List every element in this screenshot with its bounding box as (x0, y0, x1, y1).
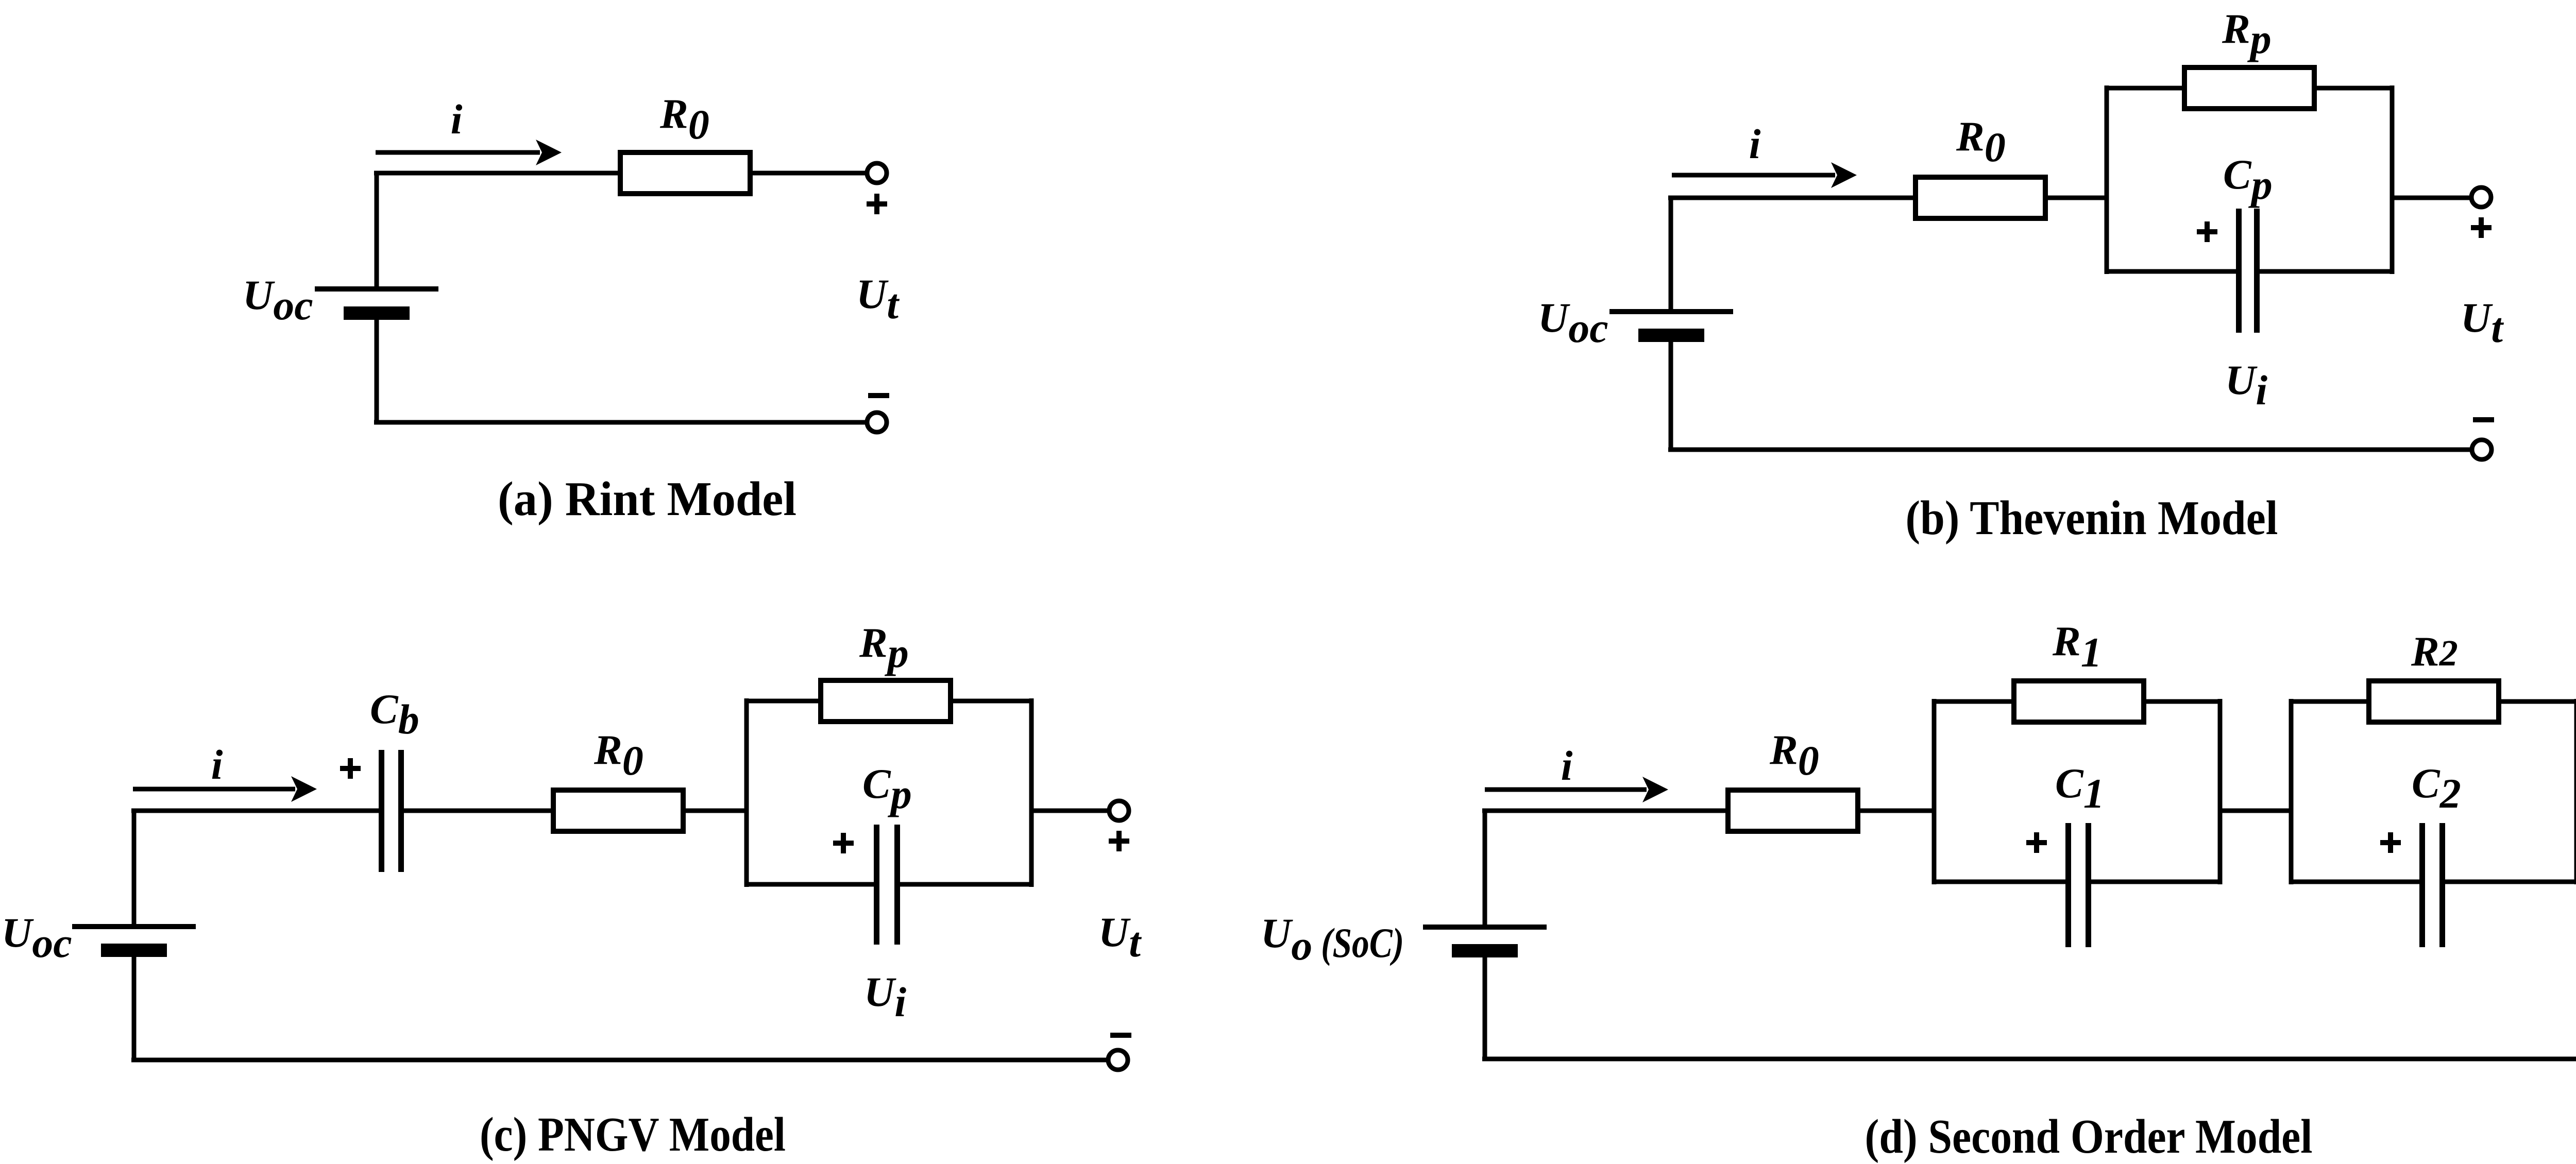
resistor R0 (d) (1728, 790, 1858, 831)
wire R0 to RC group 1 (d) (1858, 809, 1934, 813)
resistor Rp (b) (2184, 67, 2314, 109)
plus sign capacitor C2 (d) (2380, 832, 2401, 853)
wire bottom (c) (131, 1058, 1107, 1063)
output wire (c) (1031, 809, 1108, 813)
battery Uoc (a) long plate (315, 286, 438, 292)
output wire (b) (2392, 196, 2470, 200)
capacitor C1 (d) left plate (2065, 823, 2071, 947)
current arrow i (d) (1485, 777, 1668, 802)
resistor R1 (d) (2014, 681, 2144, 722)
capacitor Cp (c) left plate (874, 825, 879, 945)
RC group top wire right segment (b) (2314, 86, 2394, 91)
battery Uoc (c) long plate (72, 924, 196, 929)
RC group 1 top wire left segment (d) (1932, 699, 2014, 704)
RC group bottom wire right segment (b) (2260, 269, 2394, 274)
RC group right vertical (c) (1029, 698, 1034, 887)
minus sign terminal (c) (1110, 1033, 1131, 1038)
wire source to R0 (b) (1668, 196, 1916, 200)
capacitor Cb (c) right plate (398, 750, 404, 872)
capacitor C1 (d) right plate (2086, 823, 2091, 947)
minus sign terminal (a) (868, 393, 889, 398)
battery Uoc (b) long plate (1609, 309, 1733, 314)
resistor R2 (d) (2369, 681, 2499, 722)
RC group 2 left vertical (d) (2289, 699, 2294, 884)
battery Uo (d) long plate (1423, 925, 1547, 930)
plus sign terminal (c) (1109, 831, 1129, 851)
resistor Rp (c) (821, 680, 951, 722)
RC group 1 bottom wire right segment (d) (2091, 880, 2222, 884)
svg-text:i: i (1561, 742, 1573, 789)
wire R0 to RC group (c) (683, 809, 747, 813)
capacitor Cp (b) left plate (2236, 209, 2242, 333)
battery Uoc (a) thick plate (344, 306, 410, 320)
wire R0 to RC group (b) (2045, 196, 2107, 200)
terminal - (a) (867, 413, 887, 432)
wire left vertical (c) (132, 811, 137, 925)
wire bottom (b) (1668, 448, 2470, 452)
battery Uoc (c) thick plate (101, 944, 167, 957)
svg-text:i: i (451, 96, 463, 143)
RC group top wire left segment (c) (744, 699, 821, 704)
terminal + (a) (867, 163, 887, 183)
RC group 1 bottom wire left segment (d) (1932, 880, 2065, 884)
current arrow i (c) (133, 776, 317, 802)
RC group 1 right vertical (d) (2218, 699, 2223, 884)
RC group left vertical (b) (2105, 85, 2109, 274)
RC group top wire left segment (b) (2105, 86, 2184, 91)
wire Cb to R0 (c) (404, 809, 553, 813)
wire R0 to terminal (a) (750, 171, 866, 176)
RC group 2 bottom wire left segment (d) (2289, 880, 2419, 884)
wire RC group 1 to RC group 2 (d) (2220, 809, 2291, 813)
wire left vertical (d) (1483, 811, 1487, 925)
wire bottom (d) (1482, 1057, 2576, 1062)
terminal + (c) (1109, 801, 1129, 820)
plus sign terminal (a) (867, 194, 887, 214)
capacitor Cb (c) left plate (379, 750, 384, 872)
current arrow i (b) (1672, 162, 1857, 188)
RC group bottom wire left segment (c) (744, 882, 874, 887)
svg-text:i: i (211, 741, 223, 788)
battery Uoc (b) thick plate (1638, 329, 1704, 342)
RC group bottom wire left segment (b) (2105, 269, 2236, 274)
RC group 1 top wire right segment (d) (2144, 699, 2222, 704)
terminal - (b) (2472, 440, 2492, 459)
current arrow i (a) (376, 140, 562, 165)
svg-text:R2: R2 (2411, 628, 2458, 675)
RC group bottom wire right segment (c) (900, 882, 1033, 887)
RC group left vertical (c) (744, 698, 749, 887)
wire left vertical (a) (375, 173, 379, 287)
wire left vertical (b) (1669, 198, 1673, 310)
capacitor Cp (b) right plate (2254, 209, 2260, 333)
wire bottom-left vertical (a) (375, 319, 379, 424)
terminal - (c) (1108, 1050, 1128, 1070)
svg-text:(a) Rint Model: (a) Rint Model (498, 472, 796, 526)
svg-text:(b) Thevenin Model: (b) Thevenin Model (1906, 491, 2278, 545)
wire bottom-left vertical (b) (1669, 341, 1673, 452)
resistor R0 (c) (553, 790, 683, 831)
svg-text:(d) Second Order Model: (d) Second Order Model (1865, 1110, 2313, 1163)
wire top (a) from source to R0 (374, 171, 620, 176)
RC group right vertical (b) (2390, 85, 2395, 274)
RC group 1 left vertical (d) (1932, 699, 1937, 884)
RC group 2 right vertical (d) (2574, 699, 2576, 884)
plus sign capacitor C1 (d) (2026, 832, 2047, 853)
wire bottom (a) (374, 420, 866, 425)
RC group 2 top wire right segment (d) (2499, 699, 2576, 704)
RC group 2 bottom wire right segment (d) (2445, 880, 2576, 884)
plus sign capacitor Cp (b) (2197, 221, 2217, 242)
resistor R0 (b) (1916, 177, 2045, 218)
plus sign terminal (b) (2471, 217, 2492, 238)
wire bottom-left vertical (c) (132, 956, 137, 1062)
svg-text:(c) PNGV Model: (c) PNGV Model (480, 1108, 786, 1161)
wire bottom-left vertical (d) (1483, 957, 1487, 1061)
RC group top wire right segment (c) (951, 699, 1033, 704)
plus sign capacitor Cb (c) (340, 758, 361, 779)
RC group 2 top wire left segment (d) (2289, 699, 2369, 704)
plus sign capacitor Cp (c) (833, 833, 854, 853)
wire source to Cb (c) (131, 809, 379, 813)
minus sign terminal (b) (2473, 417, 2494, 422)
terminal + (b) (2471, 187, 2491, 207)
battery Uo (d) thick plate (1452, 944, 1518, 957)
wire source to R0 (d) (1482, 809, 1728, 813)
svg-text:i: i (1749, 121, 1761, 167)
capacitor Cp (c) right plate (894, 825, 900, 945)
capacitor C2 (d) left plate (2419, 823, 2425, 947)
resistor R0 (a) (620, 152, 750, 194)
capacitor C2 (d) right plate (2439, 823, 2445, 947)
